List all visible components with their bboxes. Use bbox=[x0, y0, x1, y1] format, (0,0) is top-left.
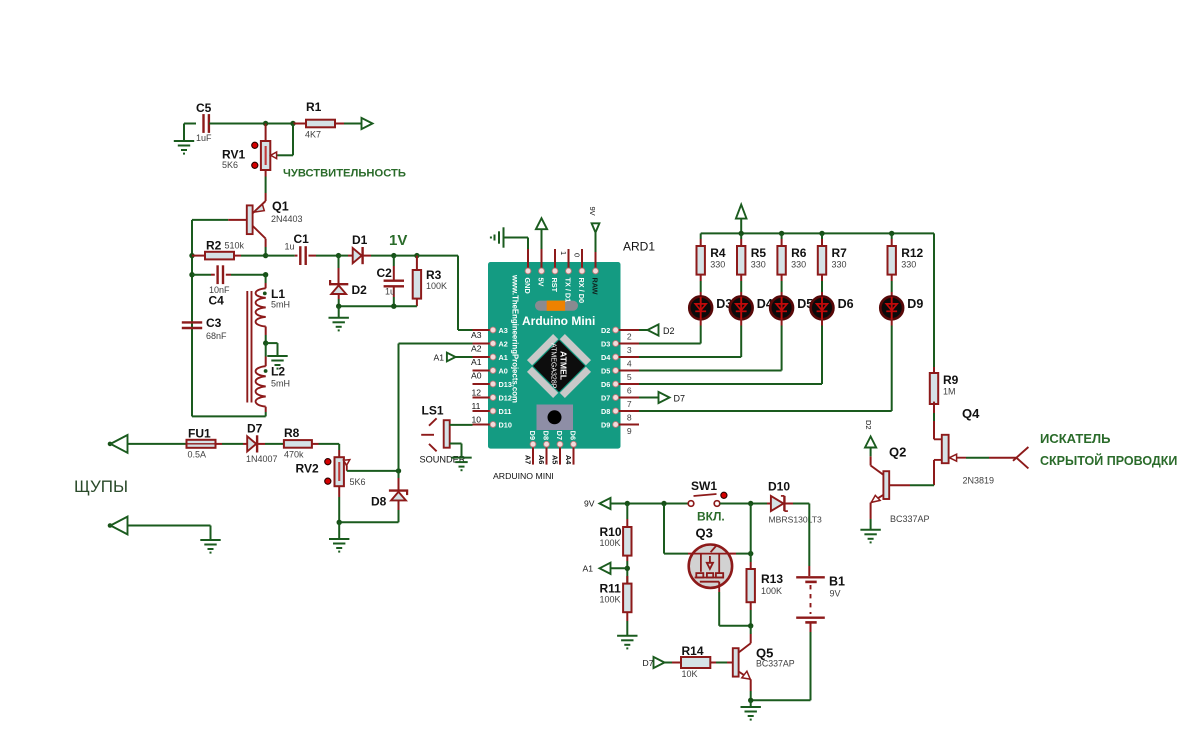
svg-text:A1: A1 bbox=[499, 353, 508, 362]
LS1 pin to ground bbox=[450, 443, 462, 445]
svg-text:ЧУВСТВИТЕЛЬНОСТЬ: ЧУВСТВИТЕЛЬНОСТЬ bbox=[283, 168, 406, 180]
capacitor C2 bbox=[393, 256, 395, 266]
R13 bbox=[750, 504, 752, 554]
svg-text:BC337AP: BC337AP bbox=[890, 514, 930, 524]
node C2 top bbox=[391, 253, 396, 258]
svg-text:470k: 470k bbox=[284, 449, 304, 459]
wire rail to R9 bbox=[933, 233, 935, 367]
ground below C5 bbox=[184, 123, 196, 125]
inductor L1 bbox=[265, 275, 267, 283]
svg-text:R13: R13 bbox=[761, 572, 783, 586]
svg-text:ЩУПЫ: ЩУПЫ bbox=[74, 477, 128, 496]
svg-text:1uF: 1uF bbox=[196, 133, 212, 143]
svg-text:D7: D7 bbox=[555, 431, 564, 440]
svg-text:D6: D6 bbox=[838, 297, 854, 311]
diode D2 (zener) bbox=[338, 256, 340, 268]
diode D10 (MBRS130LT3) bbox=[767, 503, 771, 505]
svg-text:A1: A1 bbox=[471, 357, 482, 367]
svg-text:C1: C1 bbox=[294, 232, 310, 246]
svg-text:9V: 9V bbox=[584, 499, 595, 509]
svg-text:LS1: LS1 bbox=[422, 404, 444, 418]
svg-text:C5: C5 bbox=[196, 101, 212, 115]
svg-text:RST: RST bbox=[550, 278, 559, 293]
wire 1V net to Arduino A3 bbox=[417, 255, 458, 257]
wire LED D9 to pin row bbox=[891, 319, 893, 326]
svg-text:C2: C2 bbox=[377, 266, 393, 280]
svg-text:330: 330 bbox=[901, 260, 916, 270]
svg-text:R6: R6 bbox=[791, 246, 807, 260]
svg-text:0: 0 bbox=[573, 253, 582, 257]
wire LED D3 to pin row bbox=[700, 319, 702, 326]
svg-text:2: 2 bbox=[627, 332, 632, 342]
LED D6 bbox=[811, 297, 834, 320]
svg-text:D7: D7 bbox=[601, 394, 610, 403]
svg-text:D2: D2 bbox=[663, 326, 675, 336]
svg-text:B1: B1 bbox=[829, 575, 845, 589]
svg-text:D10: D10 bbox=[499, 421, 512, 430]
antenna probe symbol bbox=[1016, 447, 1028, 458]
transistor Q4 (JFET 2N3819) bbox=[934, 438, 942, 440]
svg-text:100K: 100K bbox=[426, 281, 447, 291]
svg-text:Q2: Q2 bbox=[889, 445, 906, 460]
svg-text:D9: D9 bbox=[528, 431, 537, 440]
svg-text:D6: D6 bbox=[601, 380, 610, 389]
svg-text:RAW: RAW bbox=[590, 278, 599, 295]
wire L2 bottom loop bbox=[265, 407, 267, 412]
transistor Q2 (BC337AP) bbox=[910, 484, 934, 486]
svg-text:5K6: 5K6 bbox=[350, 477, 366, 487]
potentiometer RV1 bbox=[265, 124, 267, 142]
svg-text:R9: R9 bbox=[943, 373, 959, 387]
svg-text:9V: 9V bbox=[830, 589, 841, 599]
RV1 wiper arrow bbox=[292, 124, 294, 156]
svg-text:5V: 5V bbox=[536, 278, 545, 287]
ground below D2 bbox=[329, 318, 349, 331]
svg-text:A6: A6 bbox=[537, 455, 546, 464]
GND pin to ground bbox=[527, 238, 529, 250]
transistor Q5 (BC337AP) bbox=[733, 648, 739, 676]
capacitor C1 bbox=[266, 255, 295, 257]
transformer core bbox=[246, 291, 248, 403]
capacitor C4 bbox=[189, 272, 194, 277]
ground bottom rail bbox=[741, 707, 761, 720]
svg-text:330: 330 bbox=[710, 260, 725, 270]
svg-text:5: 5 bbox=[627, 372, 632, 382]
svg-text:8: 8 bbox=[627, 413, 632, 423]
resistor R8 bbox=[284, 440, 312, 448]
svg-text:10: 10 bbox=[472, 414, 482, 424]
resistor R1 bbox=[293, 123, 306, 125]
svg-text:1N4007: 1N4007 bbox=[246, 454, 278, 464]
svg-text:1u: 1u bbox=[385, 287, 395, 297]
svg-text:R10: R10 bbox=[600, 525, 622, 539]
svg-text:A3: A3 bbox=[471, 330, 482, 340]
node: R1/wiper junction bbox=[290, 121, 295, 126]
switch SW1 bbox=[688, 501, 694, 507]
svg-text:D7: D7 bbox=[643, 658, 654, 668]
svg-text:ВКЛ.: ВКЛ. bbox=[697, 510, 725, 524]
node ground rail bbox=[748, 698, 753, 703]
svg-text:D6: D6 bbox=[568, 431, 577, 440]
svg-text:L2: L2 bbox=[271, 365, 285, 379]
svg-text:A3: A3 bbox=[499, 326, 508, 335]
svg-text:C3: C3 bbox=[206, 316, 222, 330]
svg-text:5mH: 5mH bbox=[271, 300, 290, 310]
svg-text:0.5A: 0.5A bbox=[188, 450, 207, 460]
R11 bbox=[626, 576, 628, 584]
svg-text:D8: D8 bbox=[371, 495, 387, 509]
RV2 wiper bbox=[345, 463, 347, 471]
svg-text:100K: 100K bbox=[600, 538, 621, 548]
resistor R7 (330) bbox=[821, 233, 823, 239]
power arrow 5V bbox=[536, 218, 547, 229]
svg-text:R12: R12 bbox=[901, 246, 923, 260]
svg-text:A5: A5 bbox=[551, 455, 560, 464]
resistor R2 bbox=[189, 253, 194, 258]
svg-text:4K7: 4K7 bbox=[305, 130, 321, 140]
resistor R12 (330) bbox=[891, 233, 893, 239]
svg-text:A2: A2 bbox=[471, 344, 482, 354]
node A1 bbox=[625, 566, 630, 571]
LS1 pin to D10 bbox=[450, 424, 473, 426]
capacitor C3 bbox=[182, 321, 202, 323]
svg-text:330: 330 bbox=[791, 260, 806, 270]
L1/L2 midpoint to ground bbox=[265, 327, 267, 336]
svg-text:D11: D11 bbox=[499, 407, 512, 416]
svg-text:D12: D12 bbox=[499, 394, 512, 403]
svg-text:A1: A1 bbox=[583, 564, 594, 574]
LED rail power arrow bbox=[740, 219, 742, 234]
arduino: resonator bbox=[535, 301, 578, 311]
svg-text:R7: R7 bbox=[832, 246, 848, 260]
wire LED D4 to pin row bbox=[740, 319, 742, 326]
svg-text:MBRS130LT3: MBRS130LT3 bbox=[769, 515, 823, 525]
svg-text:Q4: Q4 bbox=[962, 406, 980, 421]
svg-text:2N3819: 2N3819 bbox=[963, 476, 995, 486]
node RV2/D8 ground bbox=[337, 520, 342, 525]
svg-text:68nF: 68nF bbox=[206, 331, 227, 341]
svg-text:FU1: FU1 bbox=[188, 427, 211, 441]
svg-text:D7: D7 bbox=[674, 394, 686, 404]
svg-text:D5: D5 bbox=[601, 367, 610, 376]
arduino: bottom pins bbox=[532, 444, 534, 464]
svg-text:R2: R2 bbox=[206, 239, 222, 253]
resistor R5 (330) bbox=[740, 233, 742, 239]
LED power rail bbox=[701, 232, 934, 234]
arduino: chip ATMEGA328P bbox=[533, 340, 585, 392]
svg-text:A2: A2 bbox=[499, 340, 508, 349]
svg-text:A7: A7 bbox=[524, 455, 533, 464]
terminal (output, right arrow) bbox=[362, 118, 373, 129]
5V power terminal bbox=[541, 230, 543, 250]
sounder LS1 bbox=[444, 420, 450, 448]
svg-text:ATMEGA328P: ATMEGA328P bbox=[550, 343, 557, 389]
node RV2 wiper / D8 / A2 bbox=[396, 468, 401, 473]
svg-text:9V: 9V bbox=[588, 207, 597, 216]
LED D9 bbox=[880, 297, 903, 320]
svg-text:A1: A1 bbox=[434, 353, 445, 363]
svg-text:7: 7 bbox=[627, 399, 632, 409]
Q2 emitter to ground bbox=[871, 495, 883, 503]
wire RV1 bottom to Q1 emitter bbox=[265, 170, 267, 177]
diode D1 bbox=[339, 255, 349, 257]
Q4 gate wire and arrow bbox=[949, 457, 966, 459]
svg-text:100K: 100K bbox=[600, 595, 621, 605]
diode D7 bbox=[243, 443, 247, 445]
node: RV1 top junction bbox=[263, 121, 268, 126]
svg-text:RX / D0: RX / D0 bbox=[577, 278, 586, 304]
wire A2 net vertical bbox=[398, 344, 400, 471]
svg-text:R8: R8 bbox=[284, 426, 300, 440]
svg-text:ATMEL: ATMEL bbox=[559, 351, 569, 380]
ground below probe 2 bbox=[200, 540, 220, 553]
svg-text:TX / D1: TX / D1 bbox=[563, 278, 572, 303]
svg-text:1: 1 bbox=[559, 251, 568, 255]
svg-text:330: 330 bbox=[832, 260, 847, 270]
svg-text:Arduino Mini: Arduino Mini bbox=[522, 314, 595, 328]
diode D8 (zener) bbox=[398, 471, 400, 478]
svg-text:R14: R14 bbox=[682, 644, 704, 658]
svg-text:ИСКАТЕЛЬ: ИСКАТЕЛЬ bbox=[1040, 431, 1110, 446]
wire LED D5 to pin row bbox=[781, 319, 783, 326]
svg-text:D1: D1 bbox=[352, 233, 368, 247]
node R3 top bbox=[414, 253, 419, 258]
svg-text:A0: A0 bbox=[499, 367, 508, 376]
terminal D2 above Q2 bbox=[865, 437, 876, 448]
svg-text:4: 4 bbox=[627, 359, 632, 369]
ground below RV2 bbox=[329, 539, 349, 552]
ground below R11 bbox=[617, 636, 637, 649]
svg-text:D2: D2 bbox=[864, 420, 873, 430]
Q3 gate wire bbox=[663, 504, 665, 554]
svg-text:10K: 10K bbox=[682, 669, 698, 679]
svg-text:ARDUINO MINI: ARDUINO MINI bbox=[493, 471, 554, 481]
LED D3 bbox=[689, 297, 712, 320]
svg-text:510k: 510k bbox=[225, 241, 245, 251]
A1 terminal at Arduino bbox=[447, 353, 456, 362]
probe terminal 1 bbox=[108, 442, 113, 447]
svg-text:D4: D4 bbox=[601, 353, 611, 362]
svg-text:R3: R3 bbox=[426, 268, 442, 282]
svg-text:D7: D7 bbox=[247, 422, 263, 436]
svg-text:6: 6 bbox=[627, 386, 632, 396]
arduino: top pins bbox=[527, 249, 529, 271]
battery B1 9V bbox=[808, 504, 810, 567]
svg-text:R5: R5 bbox=[751, 246, 767, 260]
svg-text:BC337AP: BC337AP bbox=[756, 659, 795, 669]
svg-text:A0: A0 bbox=[471, 371, 482, 381]
ground below LS1 bbox=[451, 458, 471, 471]
LED D5 bbox=[770, 297, 793, 320]
terminal 9V at RAW bbox=[592, 223, 600, 232]
svg-text:C4: C4 bbox=[209, 294, 225, 308]
svg-text:D2: D2 bbox=[352, 283, 368, 297]
inductor L2 bbox=[265, 343, 267, 356]
RAW 9V terminal bbox=[595, 233, 597, 253]
D7 output terminal bbox=[639, 397, 659, 399]
svg-text:Q1: Q1 bbox=[272, 200, 289, 214]
potentiometer RV2 bbox=[335, 457, 344, 486]
arduino: left pins bbox=[473, 329, 494, 331]
svg-text:RV2: RV2 bbox=[296, 462, 319, 476]
resistor R3 bbox=[416, 256, 418, 270]
svg-text:GND: GND bbox=[523, 278, 532, 294]
node Q3 drain / R13 bbox=[748, 551, 753, 556]
svg-text:9: 9 bbox=[627, 426, 632, 436]
svg-text:D10: D10 bbox=[768, 480, 790, 494]
svg-text:R11: R11 bbox=[600, 582, 622, 596]
fuse FU1 bbox=[187, 440, 216, 448]
svg-text:D2: D2 bbox=[601, 326, 610, 335]
arduino module ARD1 bbox=[488, 262, 621, 449]
svg-text:A4: A4 bbox=[564, 455, 573, 465]
svg-text:330: 330 bbox=[751, 260, 766, 270]
svg-text:D8: D8 bbox=[541, 431, 550, 440]
wire LED D6 to pin row bbox=[821, 319, 823, 326]
svg-text:11: 11 bbox=[472, 401, 481, 411]
node R10 top bbox=[625, 501, 630, 506]
svg-text:2N4403: 2N4403 bbox=[271, 214, 303, 224]
svg-text:D13: D13 bbox=[499, 380, 512, 389]
wire R8 to RV2 bbox=[338, 444, 340, 450]
resistor R6 (330) bbox=[781, 233, 783, 239]
node after switch bbox=[748, 501, 753, 506]
svg-text:D9: D9 bbox=[601, 421, 610, 430]
R10 bbox=[626, 504, 628, 520]
arduino: right pins bbox=[616, 329, 639, 331]
LED D4 bbox=[730, 297, 753, 320]
probe terminal 2 bbox=[108, 523, 113, 528]
svg-text:100K: 100K bbox=[761, 586, 782, 596]
svg-text:5mH: 5mH bbox=[271, 379, 290, 389]
svg-text:1V: 1V bbox=[389, 232, 407, 249]
transistor Q3 (P-MOSFET) bbox=[689, 545, 732, 588]
node Q3 gate top bbox=[661, 501, 666, 506]
arduino: chip pin strips bbox=[560, 334, 591, 365]
wire left column bbox=[191, 220, 193, 342]
svg-text:5K6: 5K6 bbox=[222, 160, 238, 170]
svg-text:D9: D9 bbox=[907, 297, 923, 311]
svg-text:12: 12 bbox=[472, 387, 482, 397]
svg-text:D8: D8 bbox=[601, 407, 610, 416]
wire C5 to R1 bbox=[209, 123, 293, 125]
svg-text:R1: R1 bbox=[306, 100, 322, 114]
svg-text:3: 3 bbox=[627, 345, 632, 355]
svg-text:1M: 1M bbox=[943, 387, 956, 397]
D2 output terminal bbox=[639, 329, 648, 331]
resistor R14 bbox=[681, 657, 710, 668]
svg-text:СКРЫТОЙ ПРОВОДКИ: СКРЫТОЙ ПРОВОДКИ bbox=[1040, 453, 1177, 468]
node D1/D2 bbox=[336, 253, 341, 258]
capacitor C5 bbox=[202, 114, 204, 133]
resistor R9 bbox=[933, 367, 935, 373]
svg-text:SW1: SW1 bbox=[691, 479, 717, 493]
transistor Q1 (PNP 2N4403) bbox=[247, 205, 253, 234]
RV2 bottom bbox=[338, 486, 340, 497]
resistor R4 (330) bbox=[700, 233, 702, 239]
svg-text:Q3: Q3 bbox=[696, 526, 713, 541]
svg-text:R4: R4 bbox=[710, 246, 726, 260]
svg-text:D3: D3 bbox=[601, 340, 610, 349]
arduino: reset button bbox=[537, 405, 574, 431]
bottom wire of 1V block bbox=[339, 305, 417, 307]
node R13 bottom / Q5 collector bbox=[748, 623, 753, 628]
svg-text:ARD1: ARD1 bbox=[623, 240, 655, 254]
